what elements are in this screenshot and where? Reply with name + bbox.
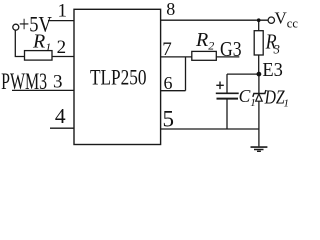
svg-text:DZ: DZ [264, 88, 285, 109]
diode DZ1 zener bar [253, 90, 266, 97]
terminal +5V [13, 24, 19, 30]
svg-text:7: 7 [162, 39, 172, 60]
wire C1 bottom lead [226, 99, 228, 129]
wire zener top lead [258, 74, 260, 94]
svg-text:PWM3: PWM3 [1, 69, 47, 94]
wire pin4 [50, 127, 74, 129]
wire pin7 [161, 56, 192, 58]
svg-text:2: 2 [57, 37, 67, 58]
op-amp U1 TLP250 body [74, 9, 161, 144]
svg-text:3: 3 [53, 72, 63, 93]
svg-text:E3: E3 [262, 60, 283, 81]
resistor R1 [25, 51, 53, 61]
wire R2 to G3 [216, 56, 239, 58]
wire R3 top lead [258, 20, 260, 31]
resistor R2 [192, 51, 217, 60]
svg-text:1: 1 [284, 97, 290, 109]
svg-text:5: 5 [162, 107, 174, 132]
resistor R3 [254, 31, 263, 55]
svg-text:3: 3 [273, 43, 280, 57]
wire C1 top lead [226, 74, 228, 93]
capacitor C1 top plate [216, 92, 239, 94]
svg-text:6: 6 [164, 73, 173, 93]
junction dot pin8/R3 [257, 18, 261, 22]
svg-text:TLP250: TLP250 [90, 64, 147, 89]
svg-text:1: 1 [58, 1, 68, 22]
label C1 plus sign [216, 82, 224, 90]
wire R3 bottom to node E3 [258, 55, 260, 74]
svg-text:4: 4 [55, 104, 66, 128]
wire zener to ground [258, 101, 260, 146]
wire pin5 [161, 128, 259, 130]
terminal Vcc [268, 17, 274, 23]
wire pin3 [12, 89, 74, 91]
svg-text:G3: G3 [220, 37, 242, 61]
capacitor C1 bottom plate [217, 98, 239, 100]
diode DZ1 triangle [256, 94, 263, 101]
wire pin6 [161, 90, 186, 92]
junction dot node E3 [257, 72, 262, 77]
wire pin1 [48, 20, 74, 22]
wire pin2 [52, 56, 74, 58]
ground [251, 146, 268, 148]
wire node E3 to C1 [227, 73, 259, 75]
wire pin6 to pin7 connector [185, 57, 187, 91]
wire pin8 [161, 19, 268, 21]
svg-text:8: 8 [166, 0, 175, 19]
wire +5V down [15, 30, 24, 56]
